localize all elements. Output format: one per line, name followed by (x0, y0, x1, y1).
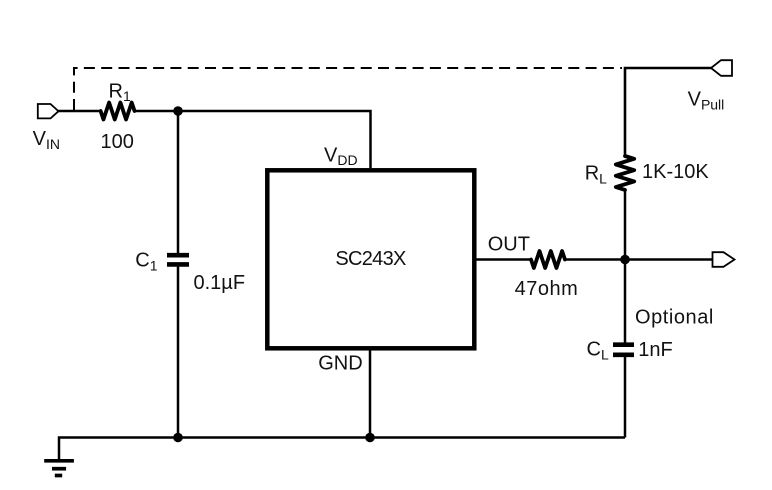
svg-text:47ohm: 47ohm (515, 278, 579, 300)
terminal OUT (713, 252, 735, 267)
svg-text:OUT: OUT (488, 233, 530, 255)
wire: 47ohm to output terminal (565, 258, 713, 261)
junction node: VIN/R1/C1 (173, 106, 183, 116)
junction node: GND/ground bus (365, 433, 375, 443)
svg-text:RL: RL (585, 163, 607, 187)
wire: junction down to C1 (177, 111, 180, 253)
wire: OUT pin to series resistor (476, 258, 532, 261)
capacitor C1 (167, 255, 189, 264)
wire: C1 to ground bus (177, 267, 180, 438)
wire: VPull terminal to RL top (625, 68, 712, 157)
wire: VIN terminal to R1 (59, 110, 102, 113)
wire: ground bus (59, 438, 625, 460)
IC U1 SC243X body (267, 170, 474, 348)
junction node: C1/ground bus (173, 433, 183, 443)
junction node: OUT/RL/CL (620, 255, 630, 265)
svg-text:100: 100 (101, 131, 134, 153)
wire: CL to ground bus (624, 357, 627, 438)
wire: dashed feedback VIN node to VPull node (74, 68, 622, 110)
wire: RL bottom to output node (624, 190, 627, 260)
wire: GND pin to ground bus (369, 350, 372, 438)
wire: R1 to VDD corner into box (134, 111, 370, 168)
svg-text:0.1µF: 0.1µF (194, 272, 246, 294)
resistor RL (616, 156, 634, 190)
svg-text:VIN: VIN (33, 128, 60, 152)
svg-text:C1: C1 (135, 250, 157, 274)
ground symbol (44, 461, 74, 476)
svg-text:CL: CL (587, 339, 609, 363)
resistor R2 47ohm (531, 251, 565, 268)
resistor R1 (101, 103, 135, 120)
svg-text:VDD: VDD (324, 145, 358, 169)
terminal VIN (38, 104, 59, 118)
svg-text:VPull: VPull (688, 89, 725, 113)
svg-text:GND: GND (318, 353, 362, 375)
wire: output node down to CL (624, 260, 627, 344)
svg-text:1nF: 1nF (638, 339, 672, 361)
svg-text:1K-10K: 1K-10K (642, 161, 709, 183)
svg-text:Optional: Optional (635, 307, 714, 329)
svg-text:SC243X: SC243X (335, 248, 406, 270)
svg-text:R1: R1 (109, 81, 131, 105)
terminal VPull (711, 60, 732, 76)
capacitor CL (613, 345, 634, 355)
